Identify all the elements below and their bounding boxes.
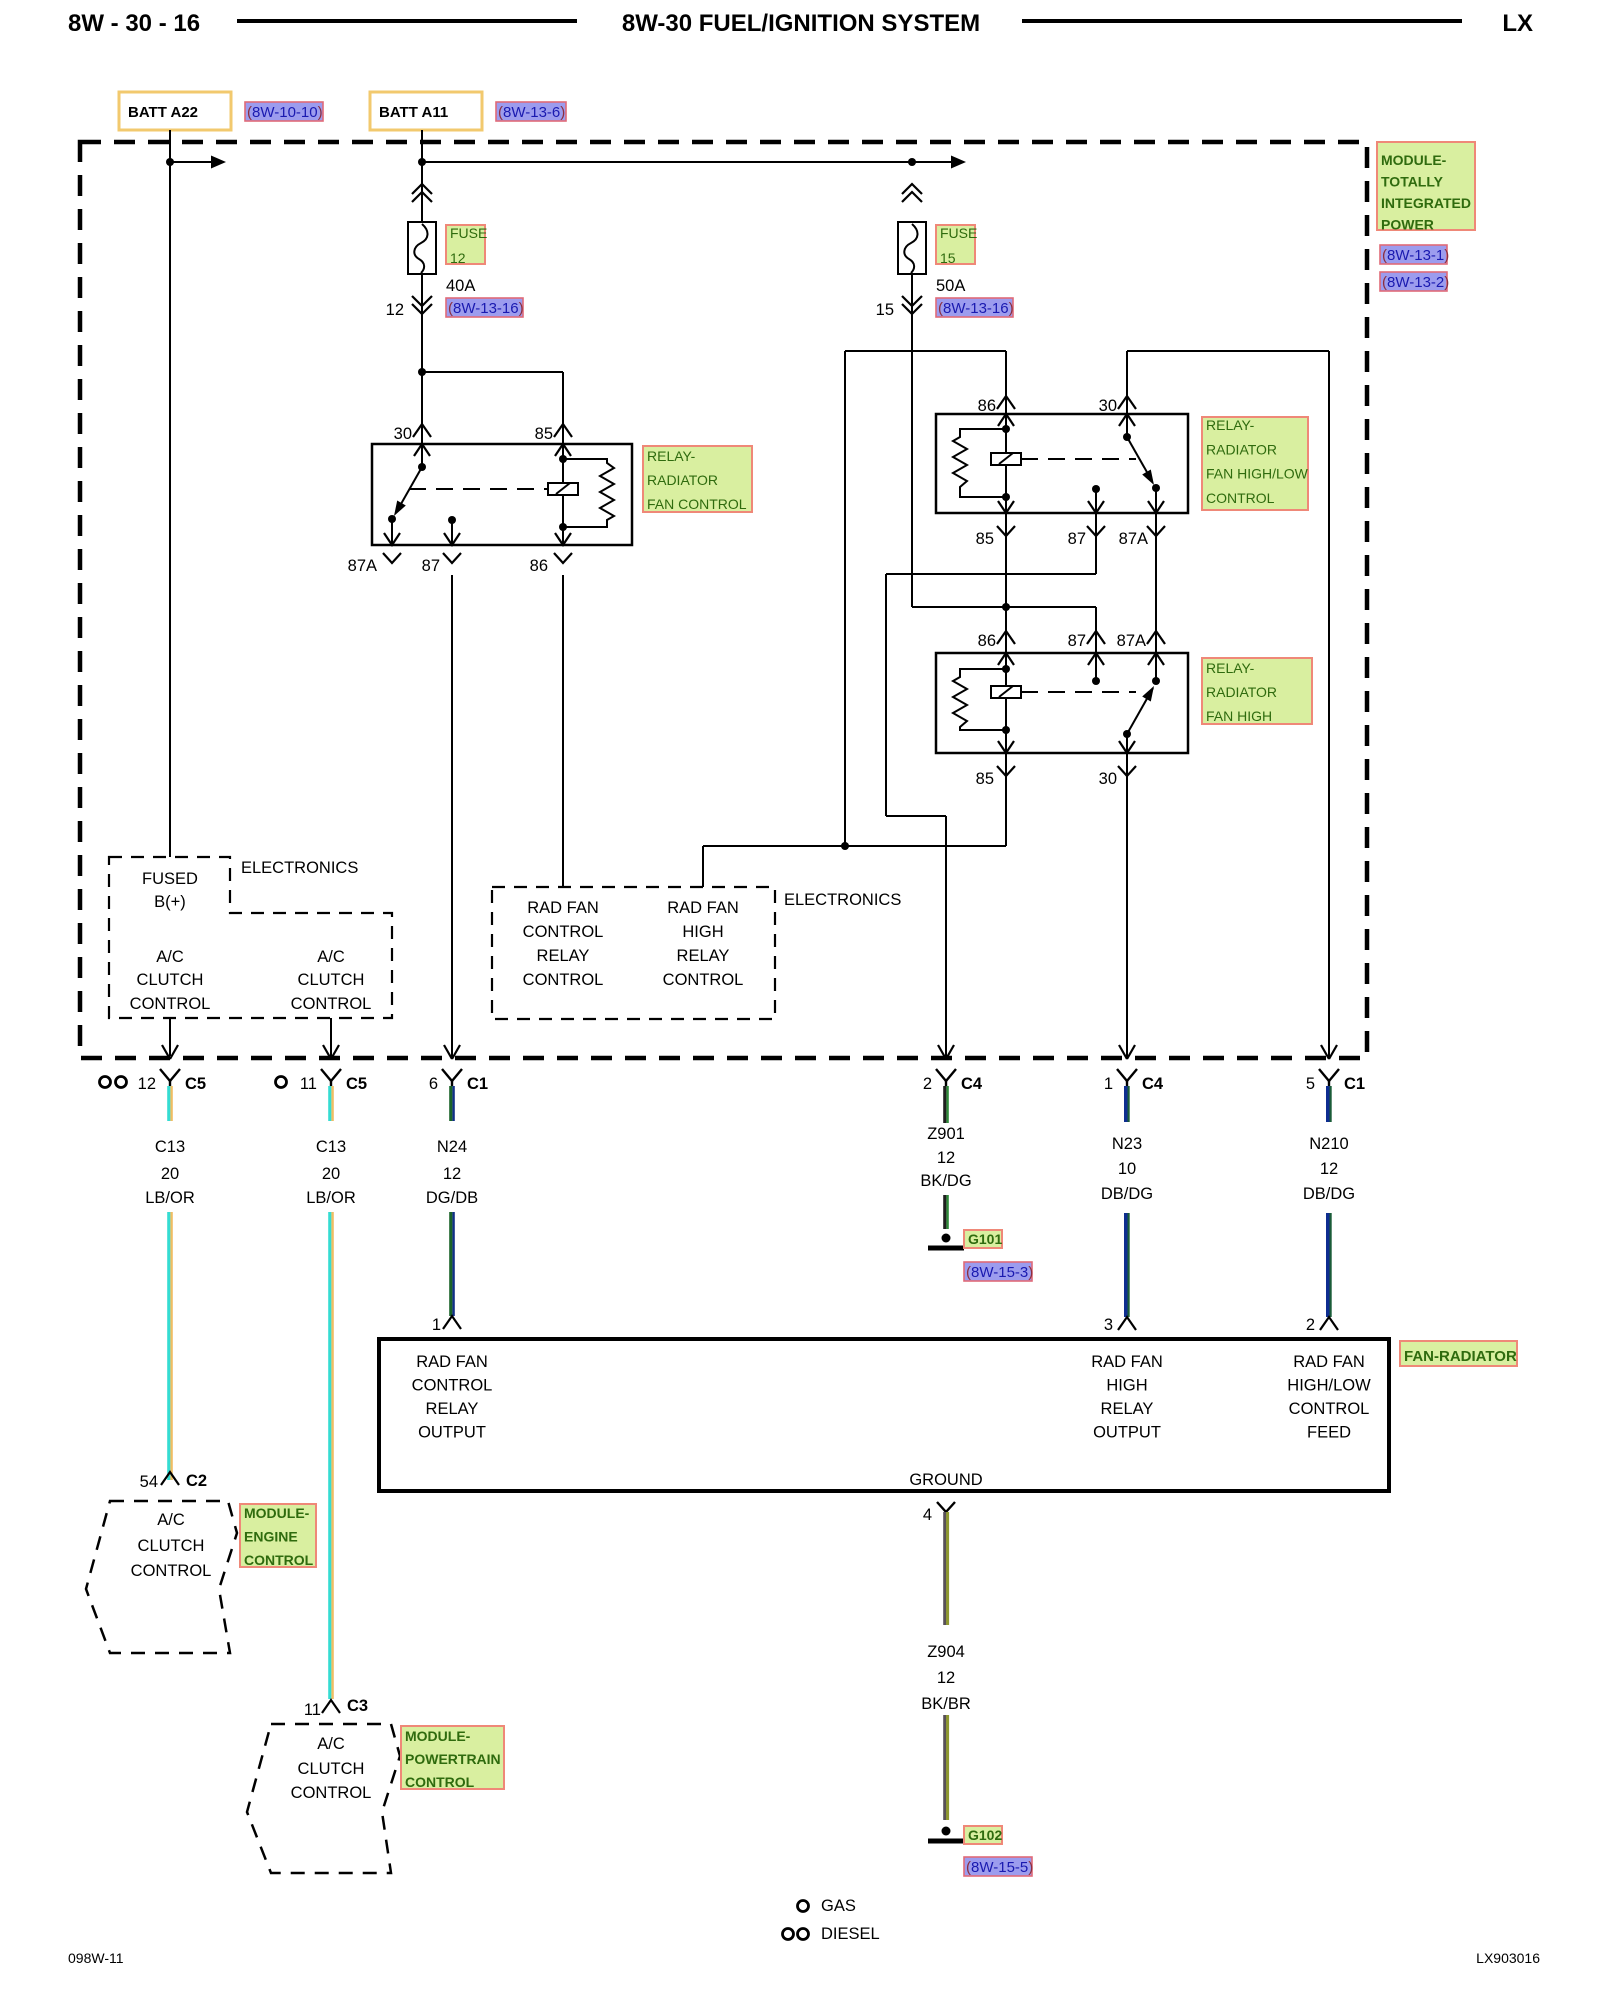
svg-text:CONTROL: CONTROL: [1289, 1400, 1370, 1418]
svg-text:(8W-13-16): (8W-13-16): [938, 300, 1014, 317]
svg-text:RAD FAN: RAD FAN: [1091, 1353, 1163, 1371]
svg-text:RELAY-: RELAY-: [1206, 417, 1255, 433]
svg-text:LX: LX: [1502, 10, 1533, 37]
svg-text:11: 11: [300, 1075, 317, 1093]
svg-text:(8W-13-1): (8W-13-1): [1382, 247, 1449, 264]
svg-text:(8W-13-2): (8W-13-2): [1382, 274, 1449, 291]
svg-text:OUTPUT: OUTPUT: [418, 1424, 486, 1442]
svg-text:RAD FAN: RAD FAN: [667, 899, 739, 917]
svg-text:30: 30: [394, 425, 412, 443]
svg-text:C1: C1: [467, 1075, 488, 1093]
svg-text:HIGH: HIGH: [1106, 1377, 1147, 1395]
svg-text:DG/DB: DG/DB: [426, 1189, 478, 1207]
svg-text:CONTROL: CONTROL: [663, 971, 744, 989]
svg-text:12: 12: [386, 301, 404, 319]
svg-text:CONTROL: CONTROL: [130, 995, 211, 1013]
svg-text:FAN CONTROL: FAN CONTROL: [647, 496, 747, 512]
svg-text:RELAY: RELAY: [426, 1400, 479, 1418]
svg-text:MODULE-: MODULE-: [244, 1505, 310, 1521]
svg-text:20: 20: [322, 1165, 340, 1183]
svg-text:85: 85: [976, 530, 994, 548]
svg-text:CONTROL: CONTROL: [405, 1774, 475, 1790]
svg-text:BK/DG: BK/DG: [920, 1172, 971, 1190]
svg-text:CLUTCH: CLUTCH: [138, 1537, 205, 1555]
svg-text:30: 30: [1099, 397, 1117, 415]
svg-text:BATT A22: BATT A22: [128, 104, 198, 121]
svg-text:CLUTCH: CLUTCH: [298, 1760, 365, 1778]
svg-text:(8W-13-6): (8W-13-6): [498, 104, 565, 121]
svg-text:POWERTRAIN: POWERTRAIN: [405, 1751, 501, 1767]
svg-text:12: 12: [937, 1149, 955, 1167]
svg-text:BATT A11: BATT A11: [379, 104, 448, 121]
svg-text:1: 1: [1104, 1075, 1113, 1093]
svg-text:3: 3: [1104, 1316, 1113, 1334]
svg-text:GAS: GAS: [821, 1897, 856, 1915]
svg-text:C4: C4: [1142, 1075, 1164, 1093]
svg-text:5: 5: [1306, 1075, 1315, 1093]
svg-text:(8W-13-16): (8W-13-16): [448, 300, 524, 317]
svg-text:LB/OR: LB/OR: [145, 1189, 195, 1207]
svg-text:ELECTRONICS: ELECTRONICS: [241, 859, 358, 877]
svg-text:(8W-15-3): (8W-15-3): [966, 1264, 1033, 1281]
svg-text:POWER: POWER: [1381, 217, 1434, 233]
svg-text:LX903016: LX903016: [1476, 1950, 1540, 1966]
svg-text:RELAY: RELAY: [537, 947, 590, 965]
svg-text:INTEGRATED: INTEGRATED: [1381, 195, 1471, 211]
svg-text:C4: C4: [961, 1075, 983, 1093]
svg-text:RAD FAN: RAD FAN: [1293, 1353, 1365, 1371]
svg-text:HIGH: HIGH: [682, 923, 723, 941]
svg-text:A/C: A/C: [156, 948, 184, 966]
svg-text:FUSE: FUSE: [940, 225, 977, 241]
svg-text:CONTROL: CONTROL: [291, 995, 372, 1013]
svg-text:ENGINE: ENGINE: [244, 1529, 298, 1545]
svg-text:CONTROL: CONTROL: [523, 923, 604, 941]
svg-text:15: 15: [940, 250, 956, 266]
svg-text:ELECTRONICS: ELECTRONICS: [784, 891, 901, 909]
svg-text:FUSE: FUSE: [450, 225, 487, 241]
svg-text:RADIATOR: RADIATOR: [647, 472, 718, 488]
svg-text:87A: 87A: [1119, 530, 1148, 548]
svg-text:MODULE-: MODULE-: [405, 1728, 471, 1744]
svg-text:12: 12: [138, 1075, 156, 1093]
svg-text:RELAY: RELAY: [677, 947, 730, 965]
svg-text:A/C: A/C: [157, 1511, 185, 1529]
svg-text:N210: N210: [1309, 1135, 1348, 1153]
svg-text:40A: 40A: [446, 277, 475, 295]
svg-text:12: 12: [450, 250, 466, 266]
svg-text:BK/BR: BK/BR: [921, 1695, 971, 1713]
svg-text:86: 86: [978, 397, 996, 415]
svg-text:C13: C13: [155, 1138, 185, 1156]
svg-text:87A: 87A: [1117, 632, 1146, 650]
svg-text:CONTROL: CONTROL: [1206, 490, 1275, 506]
svg-text:GROUND: GROUND: [909, 1471, 982, 1489]
svg-text:LB/OR: LB/OR: [306, 1189, 356, 1207]
svg-text:30: 30: [1099, 770, 1117, 788]
svg-text:15: 15: [876, 301, 894, 319]
svg-text:87: 87: [1068, 530, 1086, 548]
svg-text:RELAY-: RELAY-: [647, 448, 696, 464]
svg-text:CONTROL: CONTROL: [131, 1562, 212, 1580]
svg-text:RADIATOR: RADIATOR: [1206, 441, 1277, 457]
svg-text:87A: 87A: [348, 557, 377, 575]
svg-text:(8W-10-10): (8W-10-10): [247, 104, 323, 121]
svg-text:OUTPUT: OUTPUT: [1093, 1424, 1161, 1442]
svg-text:RELAY-: RELAY-: [1206, 660, 1255, 676]
svg-text:12: 12: [937, 1669, 955, 1687]
svg-text:FUSED: FUSED: [142, 870, 198, 888]
svg-text:HIGH/LOW: HIGH/LOW: [1287, 1377, 1371, 1395]
svg-text:CLUTCH: CLUTCH: [298, 971, 365, 989]
svg-text:(8W-15-5): (8W-15-5): [966, 1859, 1033, 1876]
svg-text:C1: C1: [1344, 1075, 1365, 1093]
svg-text:10: 10: [1118, 1160, 1136, 1178]
svg-text:C13: C13: [316, 1138, 346, 1156]
svg-text:2: 2: [923, 1075, 932, 1093]
svg-text:DB/DG: DB/DG: [1101, 1185, 1153, 1203]
svg-text:11: 11: [304, 1701, 321, 1719]
svg-text:87: 87: [422, 557, 440, 575]
svg-text:RAD FAN: RAD FAN: [416, 1353, 488, 1371]
svg-text:MODULE-: MODULE-: [1381, 152, 1447, 168]
svg-text:CONTROL: CONTROL: [412, 1377, 493, 1395]
svg-text:50A: 50A: [936, 277, 965, 295]
svg-text:098W-11: 098W-11: [68, 1950, 124, 1966]
svg-text:8W - 30 - 16: 8W - 30 - 16: [68, 10, 200, 37]
svg-text:CONTROL: CONTROL: [244, 1552, 314, 1568]
svg-text:C5: C5: [185, 1075, 206, 1093]
svg-text:C3: C3: [347, 1697, 368, 1715]
svg-text:DB/DG: DB/DG: [1303, 1185, 1355, 1203]
svg-text:CONTROL: CONTROL: [291, 1784, 372, 1802]
svg-text:2: 2: [1306, 1316, 1315, 1334]
svg-text:1: 1: [432, 1316, 441, 1334]
svg-text:RAD FAN: RAD FAN: [527, 899, 599, 917]
svg-text:G102: G102: [968, 1827, 1002, 1843]
svg-text:87: 87: [1068, 632, 1086, 650]
svg-text:85: 85: [976, 770, 994, 788]
svg-text:Z901: Z901: [927, 1125, 965, 1143]
svg-text:TOTALLY: TOTALLY: [1381, 174, 1444, 190]
svg-text:A/C: A/C: [317, 1735, 345, 1753]
svg-text:DIESEL: DIESEL: [821, 1925, 880, 1943]
svg-text:CLUTCH: CLUTCH: [137, 971, 204, 989]
svg-text:12: 12: [1320, 1160, 1338, 1178]
svg-text:RELAY: RELAY: [1101, 1400, 1154, 1418]
svg-text:4: 4: [923, 1506, 932, 1524]
svg-text:Z904: Z904: [927, 1643, 965, 1661]
svg-text:54: 54: [140, 1473, 158, 1491]
svg-text:86: 86: [530, 557, 548, 575]
svg-text:C2: C2: [186, 1472, 207, 1490]
svg-text:RADIATOR: RADIATOR: [1206, 684, 1277, 700]
svg-text:N24: N24: [437, 1138, 467, 1156]
svg-text:CONTROL: CONTROL: [523, 971, 604, 989]
svg-text:6: 6: [429, 1075, 438, 1093]
svg-text:20: 20: [161, 1165, 179, 1183]
svg-text:86: 86: [978, 632, 996, 650]
svg-text:FAN HIGH: FAN HIGH: [1206, 708, 1272, 724]
svg-text:8W-30 FUEL/IGNITION SYSTEM: 8W-30 FUEL/IGNITION SYSTEM: [622, 10, 980, 37]
svg-text:N23: N23: [1112, 1135, 1142, 1153]
svg-text:FEED: FEED: [1307, 1424, 1351, 1442]
svg-text:A/C: A/C: [317, 948, 345, 966]
svg-text:B(+): B(+): [154, 893, 186, 911]
svg-text:FAN HIGH/LOW: FAN HIGH/LOW: [1206, 466, 1309, 482]
svg-text:C5: C5: [346, 1075, 367, 1093]
svg-text:G101: G101: [968, 1231, 1002, 1247]
svg-text:FAN-RADIATOR: FAN-RADIATOR: [1404, 1348, 1517, 1365]
svg-text:85: 85: [535, 425, 553, 443]
svg-text:12: 12: [443, 1165, 461, 1183]
